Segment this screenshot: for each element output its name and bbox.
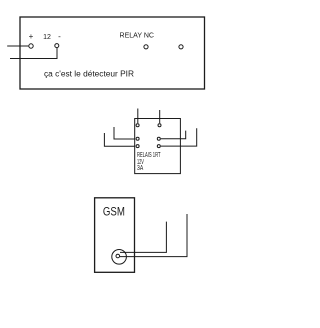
svg-text:RELAY NC: RELAY NC (120, 33, 155, 40)
svg-text:-: - (58, 32, 61, 41)
svg-text:12: 12 (43, 34, 51, 41)
svg-text:3A: 3A (137, 165, 143, 172)
svg-text:GSM: GSM (103, 205, 125, 219)
svg-text:ça c'est le détecteur PIR: ça c'est le détecteur PIR (44, 70, 134, 79)
svg-text:+: + (29, 32, 34, 41)
